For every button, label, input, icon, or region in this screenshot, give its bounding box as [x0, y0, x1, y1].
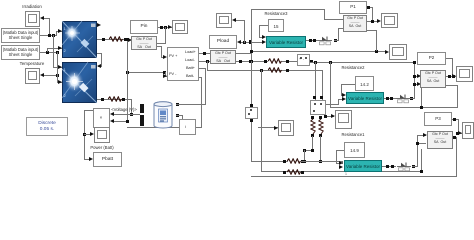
wire I block down to y161 [251, 119, 252, 162]
wire const15 to VR1 in1 [259, 25, 268, 26]
variable resistor 3 [344, 160, 382, 172]
vertical x244 [244, 20, 245, 43]
node J5 [56, 74, 59, 77]
wire ctrl Batt+ down x205 [199, 68, 206, 69]
wire up to PV1 input 2 [47, 48, 48, 52]
PV1 out port mark [97, 23, 101, 27]
wire temperature y52 [40, 52, 58, 53]
wire product in2 y121 [114, 121, 128, 122]
wire voltage y114 [114, 114, 144, 115]
wire D2 out up to eq P2 [410, 98, 415, 99]
VR3 in2 arrow [339, 165, 343, 169]
wire D3 out up to eq P3 [412, 166, 418, 167]
eq block P3 [427, 131, 453, 149]
VR1 out wire [306, 40, 318, 41]
constant 14.2 [355, 76, 374, 91]
wire scope Pload feed y20 [236, 20, 245, 21]
block Pbatt [93, 152, 122, 167]
wire vertical x49 [49, 18, 50, 36]
V measurement block [297, 54, 310, 66]
battery - out y115 [176, 114, 179, 117]
arrow into PV1 in2 [58, 46, 62, 50]
resistor Rline1 [109, 36, 123, 42]
wire PV- feed y72 [127, 72, 166, 73]
bus y107 [330, 107, 458, 108]
top feeds [313, 96, 316, 99]
eq P2 bottom stub [421, 88, 422, 107]
block P1 [339, 1, 367, 14]
node J1 [48, 34, 51, 37]
vertical x251 load rail [251, 9, 252, 62]
product in1 arrow y114 [110, 112, 114, 116]
variable resistor 1 [266, 36, 306, 48]
diode D3 [397, 162, 411, 172]
node J2 [52, 34, 55, 37]
wire scope Temperature feed [44, 75, 57, 76]
scope P2 [456, 66, 473, 82]
wire long y51 to scope load V [251, 51, 386, 52]
vertical x261 from y70 [261, 70, 262, 172]
battery terminal bar [140, 104, 144, 126]
wire rail x251 into I block [251, 61, 252, 107]
wire V meas out y62 [310, 60, 313, 63]
wire const14.9 to VR3 in1 [336, 150, 344, 151]
arrow into PV2 in2 [58, 80, 62, 84]
variable resistor 2 [346, 92, 384, 104]
constant 15 [268, 19, 284, 32]
scope Pin [172, 20, 188, 34]
eq block Pload [210, 50, 236, 64]
wire y171 rail [261, 171, 422, 172]
wire eq Pin right loop [157, 43, 166, 44]
product block [93, 108, 110, 128]
node J4 [56, 51, 59, 54]
wire D1 out up to eq P1 in2 [334, 40, 339, 41]
vertical x315 to V block [315, 62, 316, 100]
wire x57 down to PV2 input 2 [57, 52, 58, 83]
PV array 2 [62, 62, 97, 103]
eq block P2 [420, 70, 446, 88]
series link PV1-PV2 [97, 53, 102, 54]
wire eq P2 out to scope P2 [446, 76, 456, 77]
label VR3 port tick [345, 172, 347, 177]
arrow into PV2 in1 [58, 65, 62, 69]
product in2 arrow y121 [110, 119, 114, 123]
scope Irradiation [25, 11, 40, 27]
scope P3 [462, 122, 474, 139]
scope branch3 [335, 110, 352, 129]
eq P2 right loop [446, 85, 458, 86]
wire eq Pload out y53 to x244 [236, 53, 252, 54]
block P3 [424, 112, 452, 126]
arrow into PV1 in1 [58, 29, 62, 33]
powergui block Discrete [26, 117, 68, 136]
VR1 in2 arrow [262, 40, 266, 44]
VR2 in2 arrow fed from V block [342, 97, 346, 101]
diode D2 [396, 94, 410, 104]
diode D1 [318, 36, 332, 46]
vertical x322 from y70 to V block [322, 70, 323, 100]
wire battery bottom rail y127 [127, 127, 179, 128]
wire Pin out [158, 27, 172, 28]
PV array 1 [62, 21, 97, 58]
wire eq Pload in2 y61 left [199, 61, 210, 62]
wire P3 out to scope [452, 119, 459, 120]
label voltage signal [110, 107, 138, 112]
wire eq Pload in1 y53 [199, 53, 210, 54]
vertical line resistors [311, 116, 314, 119]
wires below resistors [312, 136, 313, 151]
label Resistance3 [258, 11, 294, 16]
resistor R2b [268, 67, 282, 73]
wire to PV1 input 1 [56, 31, 57, 36]
resistor R3b [287, 169, 301, 175]
label Irradiation [12, 4, 52, 9]
resistor Rline2 [108, 96, 122, 102]
vertical x127 PV minus rail [127, 39, 128, 122]
wire load+ rail top y9 [251, 9, 325, 10]
wire y161 to VR3 [301, 161, 343, 162]
scope Pload [216, 13, 232, 28]
VR3 out wire [382, 166, 396, 167]
wire PV2 out y99 [97, 99, 131, 100]
label Resistance1 [336, 132, 370, 137]
resistor R2a [268, 58, 282, 64]
eq P3 in2 loop from y171 [421, 149, 422, 171]
resistor R3a [287, 158, 301, 164]
wire scope Irradiation feed [44, 18, 50, 19]
scope Temperature [25, 68, 40, 84]
wire down x325 to eq P1 in1 [324, 9, 325, 19]
wire x53 down to PV2 input 1 [53, 35, 54, 67]
data input block 1 [1, 28, 40, 43]
block Pin [130, 20, 158, 34]
wire y161 lower branch rail [251, 161, 288, 162]
block P2 [417, 52, 446, 65]
eq P3 out loop down [453, 137, 457, 138]
wire x131 down to voltage line [131, 99, 132, 114]
V block 2 [310, 100, 326, 115]
wire irradiation y35 [40, 35, 57, 36]
node J3 [46, 51, 49, 54]
wire y70 batt rail [207, 70, 323, 71]
wire load voltage y42 [241, 42, 263, 43]
battery [153, 101, 173, 129]
eq block Pin [131, 36, 157, 50]
data input block 2 [1, 45, 40, 60]
label Power (Batt) [88, 145, 116, 150]
constant 14.9 [344, 142, 365, 158]
scope Power Batt [94, 127, 110, 143]
vertical x330 from y62 [330, 62, 331, 107]
VR2 out wire [384, 98, 396, 99]
eq block P1 [343, 15, 367, 32]
label Resistance2 [336, 65, 370, 70]
controller block [167, 47, 199, 81]
label Temperature [12, 61, 52, 66]
wire ctrl Batt- down x201 [199, 77, 202, 78]
wire eq Pin out to PV+ [157, 46, 162, 47]
wire product out left [84, 110, 93, 111]
wire P2 out y58 [446, 58, 453, 59]
wire const14.2 to VR2 in1 [341, 84, 355, 85]
bottom bus y176 [251, 176, 457, 177]
wire eq Pload out y61 [236, 61, 268, 62]
I measurement block [245, 107, 258, 119]
current measurement block [179, 119, 196, 135]
wire eq P1 bottom loop to scope load V [367, 30, 377, 31]
battery + out y104 [176, 103, 179, 106]
wire current block right y127 [196, 127, 202, 128]
wire PV1 out y39 [97, 39, 128, 40]
wire P1 out y7 [367, 7, 373, 8]
block Pload [209, 35, 237, 49]
scope P1 [381, 13, 398, 28]
wire eq P1 out y21 to scope [367, 21, 378, 22]
scope battery current [278, 120, 294, 136]
scope load V [389, 44, 407, 60]
